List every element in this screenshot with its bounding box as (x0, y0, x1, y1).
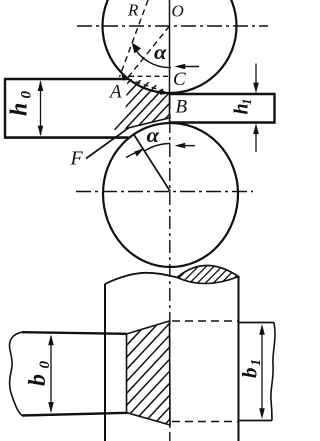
top roll horizontal centerline (77, 25, 268, 27)
bottom alpha right tail + left arrowhead (175, 143, 196, 149)
dashed radius line O-A (128, 26, 170, 78)
b1 dimension arrow (259, 324, 265, 419)
bottom alpha left arrow (tail + head) (126, 148, 145, 158)
plan view: roll body left edge (104, 284, 106, 441)
bottom roll circle (103, 123, 238, 267)
bottom roll radius line to contact point (134, 134, 171, 192)
plan strip bottom edge (22, 413, 128, 416)
svg-text:R: R (127, 1, 139, 20)
contact patch lens hatching (161, 228, 252, 319)
plan exit bottom solid line (right of roll) (239, 420, 273, 422)
alpha arc arrowhead (upper left) (132, 43, 141, 54)
bottom roll horizontal centerline (76, 191, 253, 193)
deformation zone lower boundary (shallow line to exit plane) (128, 118, 171, 129)
junction blob at A (122, 75, 131, 81)
contact patch lens outline (177, 265, 239, 283)
vertical centerline (upper, solid through rolls gap) (169, 0, 171, 94)
svg-text:B: B (176, 97, 188, 118)
F leader line (86, 128, 129, 159)
exit plane line B down (169, 94, 171, 123)
h0 dimension arrow (38, 80, 44, 136)
svg-text:F: F (70, 148, 84, 170)
svg-text:α: α (147, 124, 160, 147)
plan exit bottom dashed line (172, 421, 239, 423)
alpha arc (bottom roll) (144, 144, 170, 152)
svg-text:A: A (108, 82, 122, 103)
plan deformation quad hatching (68, 293, 225, 441)
svg-text:α: α (154, 41, 167, 64)
dashed line A-C (129, 75, 169, 77)
vertical centerline (lower, dash-dot) (169, 96, 171, 441)
exit strip bottom edge (170, 121, 275, 124)
plan deformation quad outline (127, 321, 171, 425)
dashed construction line (left of R) (120, 0, 149, 77)
alpha arc (top roll) (133, 46, 171, 68)
entry strip left edge (4, 78, 6, 139)
entry strip bottom edge (5, 136, 129, 139)
plan strip left break edge (10, 332, 23, 415)
junction sliver at B (159, 90, 170, 95)
plan view: roll body top curve (105, 273, 177, 284)
plan exit top dashed line (172, 320, 239, 322)
b0 dimension arrow (48, 335, 54, 413)
deformation zone hatching (93, 49, 204, 160)
svg-text:C: C (173, 69, 186, 90)
plan exit top solid line (right of roll) (239, 322, 275, 324)
exit strip right edge (273, 93, 275, 124)
svg-text:O: O (172, 2, 184, 21)
top roll (upper work roll circle) (103, 0, 237, 93)
plan view: roll body right edge (238, 277, 240, 441)
exit strip top edge (170, 93, 275, 96)
dashed chord A-B (128, 79, 170, 93)
plan strip top edge (22, 332, 127, 334)
entry strip top edge (5, 78, 128, 81)
h1 dimension arrows (253, 64, 259, 153)
alpha arc tail + left arrowhead (near C) (175, 64, 200, 70)
plan exit right break edge (271, 323, 275, 421)
